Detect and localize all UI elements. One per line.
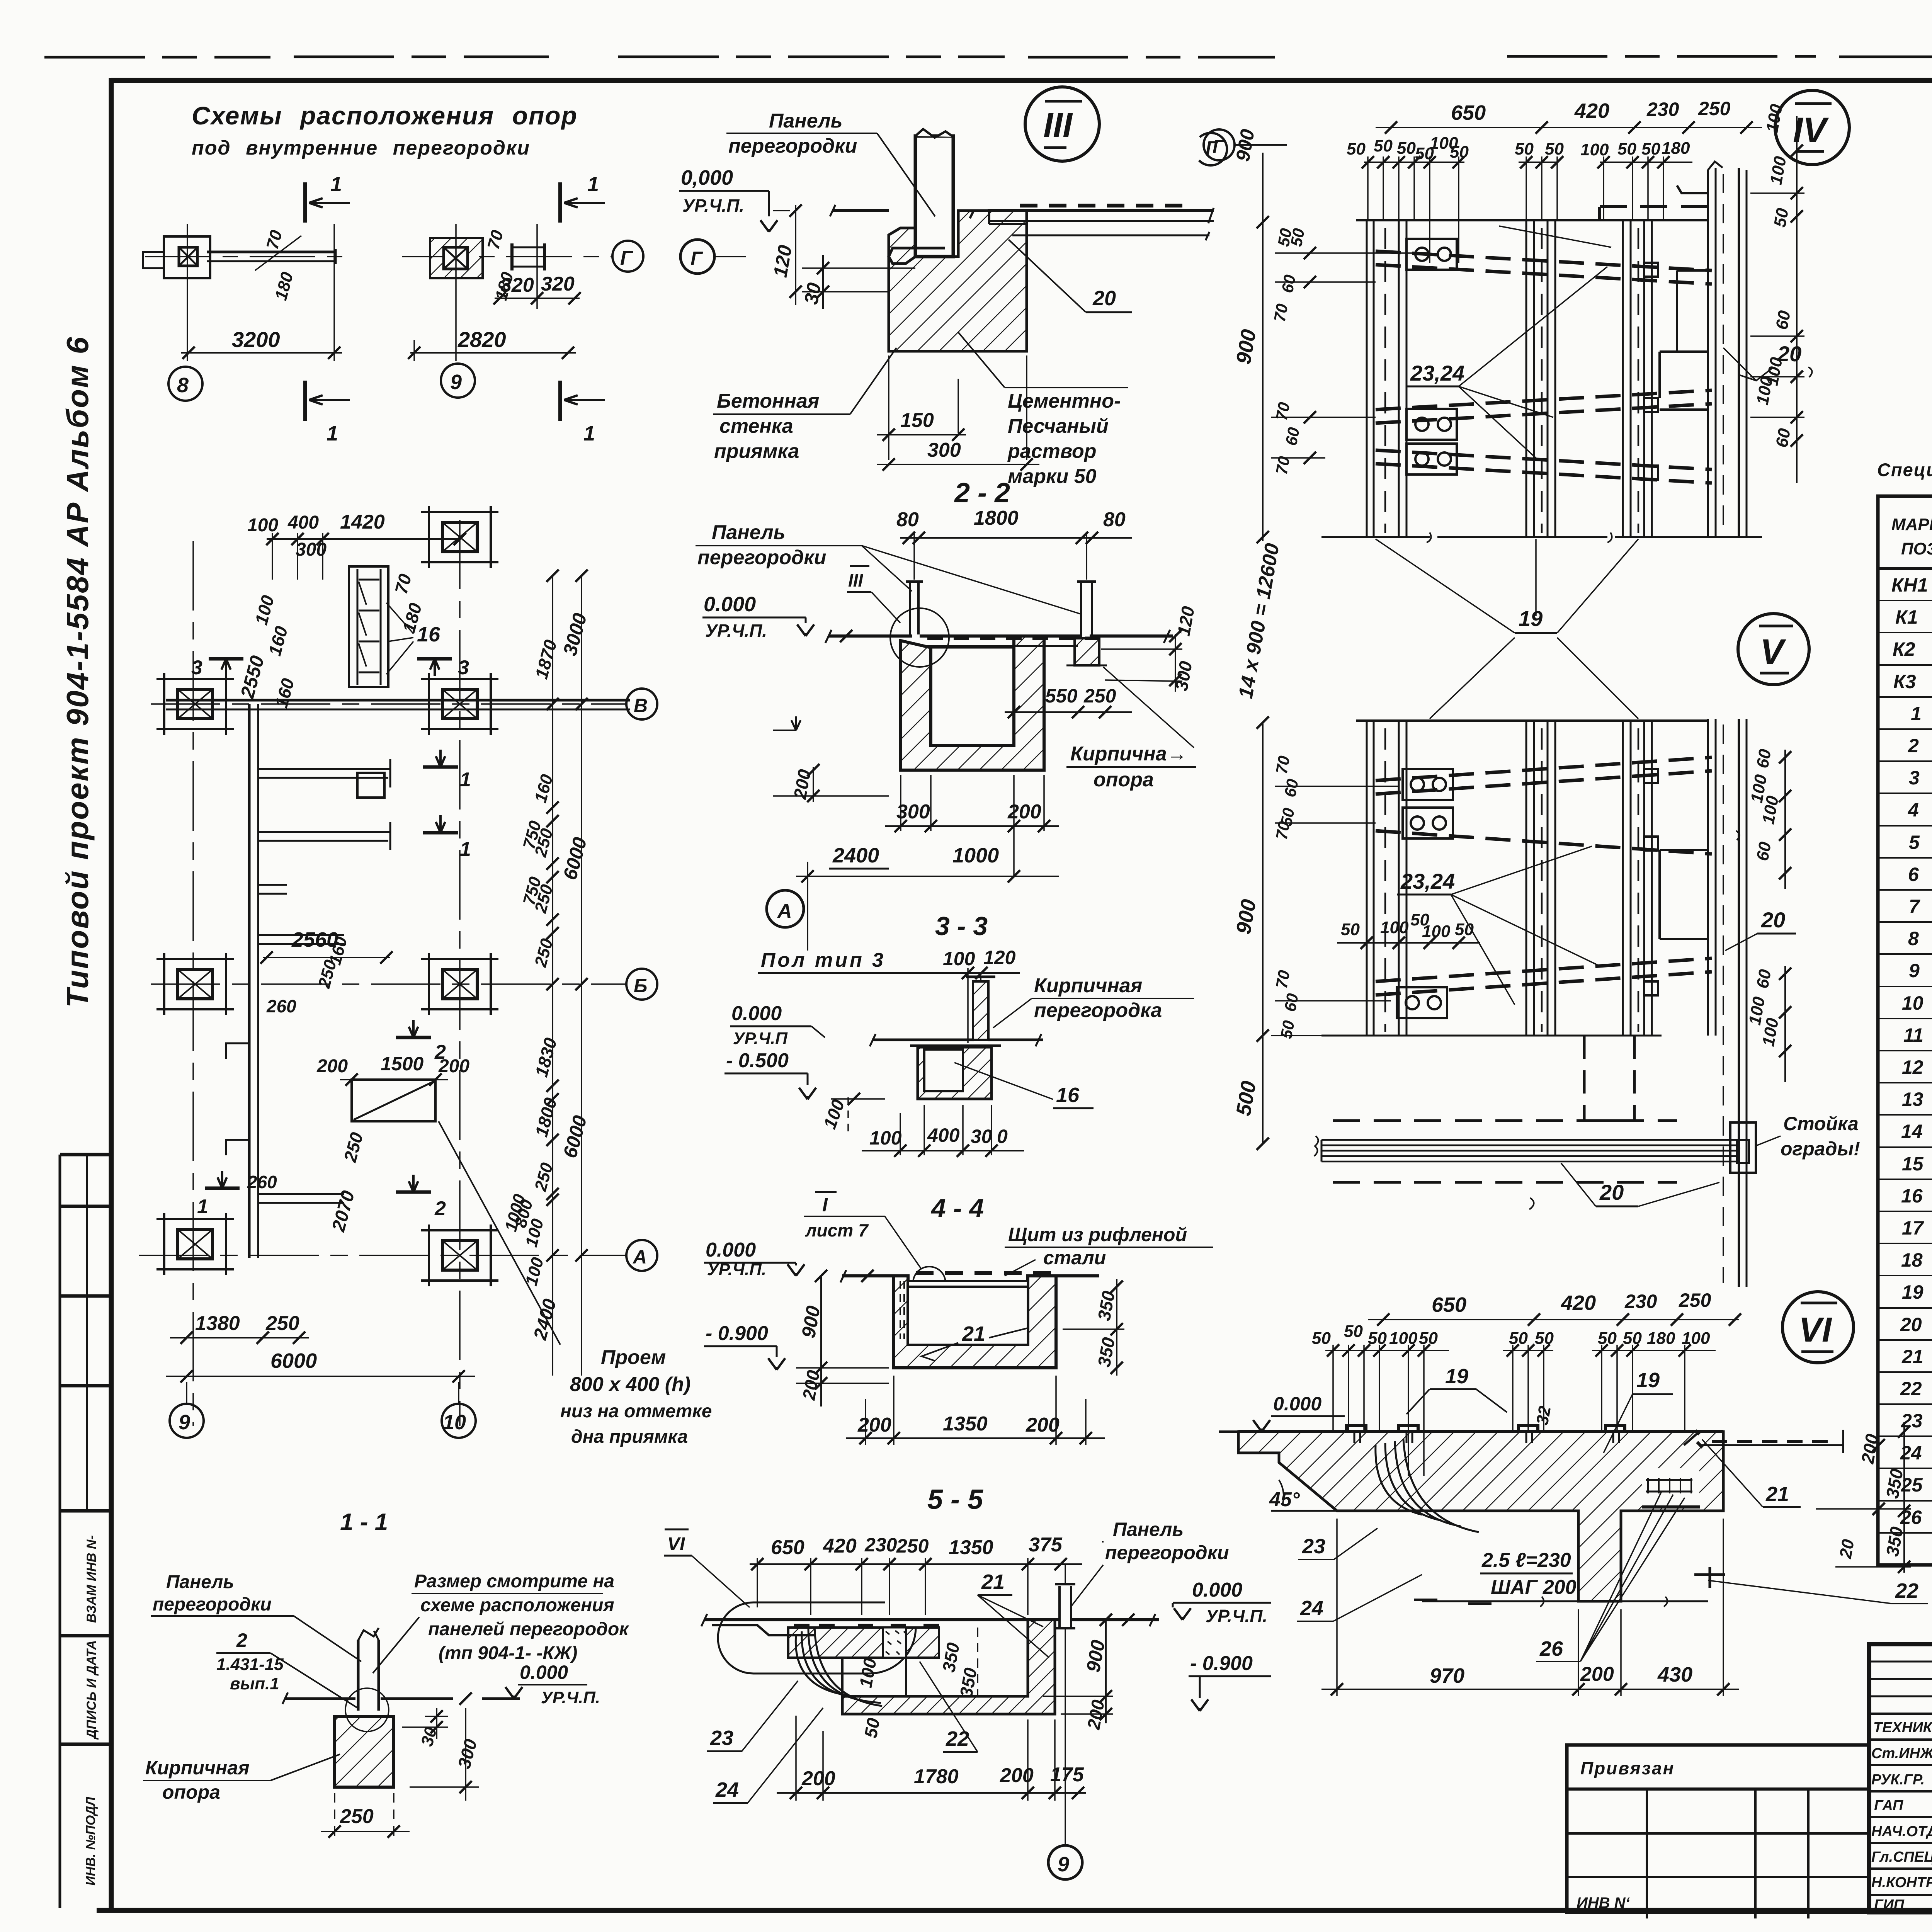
svg-text:3200: 3200 [232,327,280,352]
svg-text:0.000: 0.000 [1273,1393,1321,1415]
svg-text:1350: 1350 [949,1536,993,1559]
svg-text:МАРКА: МАРКА [1891,515,1932,534]
svg-text:низ на отметке: низ на отметке [560,1401,712,1422]
svg-text:3: 3 [458,656,469,679]
svg-text:0.000: 0.000 [704,593,756,616]
svg-text:24: 24 [715,1778,739,1801]
svg-text:26: 26 [1900,1507,1922,1528]
svg-text:Г: Г [620,247,633,269]
svg-text:раствор: раствор [1007,440,1096,463]
svg-text:375: 375 [1029,1534,1063,1556]
svg-text:УР.Ч.П.: УР.Ч.П. [1206,1606,1267,1626]
svg-text:0,000: 0,000 [681,166,733,189]
svg-text:УР.Ч.П: УР.Ч.П [733,1029,788,1048]
svg-text:23: 23 [1901,1410,1923,1432]
svg-text:100: 100 [247,515,278,536]
svg-text:100: 100 [1682,1329,1710,1348]
svg-text:650: 650 [1451,101,1486,124]
svg-text:180: 180 [1647,1329,1675,1348]
svg-text:1500: 1500 [381,1053,423,1075]
svg-text:30: 30 [971,1126,992,1147]
svg-text:60: 60 [1278,273,1299,294]
svg-text:0.000: 0.000 [706,1239,756,1261]
svg-text:опора: опора [1094,769,1154,791]
svg-text:К2: К2 [1893,638,1915,660]
svg-text:50: 50 [1515,139,1534,158]
svg-text:23,24: 23,24 [1400,869,1455,893]
svg-text:перегородка: перегородка [1034,999,1162,1022]
svg-text:12: 12 [1902,1056,1923,1078]
svg-text:60: 60 [1753,840,1775,862]
svg-text:0.000: 0.000 [731,1002,782,1025]
svg-text:30: 30 [800,281,825,306]
svg-text:VI: VI [1799,1311,1832,1349]
svg-text:21: 21 [962,1322,985,1345]
svg-text:панелей перегородок: панелей перегородок [428,1619,629,1639]
svg-text:К1: К1 [1895,606,1918,628]
svg-text:А: А [777,900,792,922]
svg-text:перегородки: перегородки [153,1594,272,1615]
svg-text:10: 10 [443,1411,466,1434]
svg-text:4 - 4: 4 - 4 [930,1194,984,1223]
svg-text:50: 50 [1455,920,1474,939]
svg-text:- 0.500: - 0.500 [726,1049,789,1072]
svg-text:200: 200 [1026,1414,1060,1436]
svg-text:19: 19 [1445,1365,1468,1388]
svg-text:400: 400 [287,512,319,533]
svg-text:23: 23 [710,1726,733,1750]
svg-text:ГИП: ГИП [1874,1897,1905,1913]
svg-text:Гл.СПЕЦ.Г: Гл.СПЕЦ.Г [1871,1849,1932,1865]
svg-text:200: 200 [857,1414,891,1436]
svg-text:ШАГ 200: ШАГ 200 [1491,1576,1577,1599]
svg-text:1: 1 [327,422,338,445]
svg-text:9: 9 [179,1411,190,1434]
svg-text:опора: опора [162,1781,220,1803]
svg-text:650: 650 [1432,1293,1466,1316]
svg-text:250: 250 [1083,685,1116,707]
svg-text:14: 14 [1901,1121,1923,1142]
svg-text:1: 1 [460,838,471,861]
svg-text:ВЗАМ ИНВ N-: ВЗАМ ИНВ N- [84,1535,99,1623]
svg-text:13: 13 [1902,1088,1923,1110]
svg-text:230: 230 [864,1534,897,1556]
svg-text:схеме расположения: схеме расположения [420,1595,614,1616]
svg-text:ИНВ. №ПОДЛ: ИНВ. №ПОДЛ [83,1797,98,1886]
svg-text:Щит из рифленой: Щит из рифленой [1008,1224,1187,1245]
svg-text:60: 60 [1281,992,1302,1013]
svg-text:2: 2 [434,1197,446,1220]
svg-text:250: 250 [340,1805,374,1828]
svg-text:19: 19 [1902,1281,1923,1303]
svg-text:Кирпичная: Кирпичная [145,1757,250,1779]
svg-text:21: 21 [1901,1346,1923,1367]
svg-text:стали: стали [1043,1247,1106,1269]
svg-text:УР.Ч.П.: УР.Ч.П. [541,1688,600,1707]
svg-text:дна приямка: дна приямка [571,1427,688,1447]
svg-text:60: 60 [1753,968,1775,990]
svg-text:19: 19 [1519,606,1543,631]
svg-text:5: 5 [1909,832,1920,853]
svg-text:5 - 5: 5 - 5 [927,1484,983,1515]
svg-text:200: 200 [1007,801,1041,823]
svg-text:17: 17 [1902,1217,1924,1239]
svg-text:19: 19 [1636,1369,1660,1392]
svg-text:К3: К3 [1893,671,1916,692]
svg-text:I: I [822,1194,828,1216]
svg-text:60: 60 [1753,748,1775,770]
svg-text:9: 9 [1909,960,1920,981]
svg-text:VI: VI [667,1534,685,1554]
svg-text:50: 50 [1641,139,1660,158]
svg-text:50: 50 [1341,920,1360,939]
svg-text:- 0.900: - 0.900 [1190,1652,1253,1675]
svg-text:100: 100 [1580,140,1609,159]
svg-text:Привязан: Привязан [1580,1758,1675,1778]
svg-text:3: 3 [191,656,202,679]
svg-text:16: 16 [417,623,440,646]
svg-text:50: 50 [1617,139,1636,158]
svg-text:(тп 904-1- -КЖ): (тп 904-1- -КЖ) [439,1643,577,1663]
svg-text:70: 70 [1272,969,1293,990]
svg-text:50: 50 [1277,1019,1298,1040]
svg-text:230: 230 [1624,1291,1657,1312]
svg-text:300: 300 [896,801,930,823]
svg-text:550: 550 [1045,685,1078,707]
svg-text:23,24: 23,24 [1410,361,1464,385]
svg-text:Песчаный: Песчаный [1008,415,1109,437]
svg-text:Панель: Панель [769,110,843,132]
svg-text:перегородки: перегородки [1105,1542,1229,1563]
svg-text:Панель: Панель [166,1572,234,1592]
svg-text:180: 180 [1662,139,1690,158]
svg-text:175: 175 [1050,1764,1084,1786]
svg-text:50: 50 [1397,139,1416,158]
svg-text:1800: 1800 [974,507,1019,529]
svg-text:Стойка: Стойка [1783,1113,1859,1134]
svg-text:21: 21 [981,1570,1005,1594]
svg-text:ИНВ N‘: ИНВ N‘ [1577,1895,1630,1912]
svg-text:под внутренние перегородки: под внутренние перегородки [192,137,530,159]
svg-text:26: 26 [1539,1637,1563,1660]
svg-text:1 - 1: 1 - 1 [340,1509,388,1536]
svg-text:1: 1 [1911,703,1922,724]
svg-text:9: 9 [1058,1853,1069,1876]
svg-text:9: 9 [450,371,462,394]
svg-text:20: 20 [1900,1314,1922,1335]
svg-text:В: В [634,695,648,716]
svg-text:200: 200 [316,1056,348,1077]
svg-text:стенка: стенка [719,415,793,437]
svg-text:1420: 1420 [340,511,385,533]
svg-text:2: 2 [1908,735,1919,757]
svg-text:2820: 2820 [457,327,506,352]
svg-text:60: 60 [1772,309,1794,331]
svg-text:24: 24 [1900,1442,1922,1464]
svg-text:3: 3 [1909,767,1920,789]
svg-text:11: 11 [1903,1024,1923,1046]
svg-text:1: 1 [587,173,599,196]
svg-text:100: 100 [1422,922,1451,941]
svg-text:300: 300 [927,439,961,461]
svg-text:2 - 2: 2 - 2 [954,478,1010,509]
svg-text:ДПИСЬ И ДАТА: ДПИСЬ И ДАТА [84,1640,99,1740]
svg-text:III: III [848,570,864,590]
svg-text:А: А [632,1246,647,1268]
svg-text:260: 260 [266,996,296,1016]
svg-text:20: 20 [1836,1538,1858,1560]
svg-text:1: 1 [583,422,595,445]
svg-text:1: 1 [197,1196,208,1218]
svg-text:Панель: Панель [1113,1519,1184,1540]
svg-text:22: 22 [946,1727,969,1750]
svg-text:15: 15 [1902,1153,1924,1175]
svg-text:22: 22 [1895,1579,1918,1602]
svg-text:1.431-15: 1.431-15 [216,1655,284,1674]
svg-text:70: 70 [1270,302,1291,323]
svg-text:320: 320 [541,273,575,295]
svg-text:РУК.ГР.: РУК.ГР. [1871,1772,1925,1788]
svg-text:50: 50 [1770,207,1793,229]
svg-text:2400: 2400 [832,844,879,867]
svg-text:Ст.ИНЖ: Ст.ИНЖ [1871,1745,1932,1762]
svg-text:Кирпичная: Кирпичная [1034,975,1142,997]
svg-text:6000: 6000 [270,1349,317,1372]
svg-text:перегородки: перегородки [697,546,826,569]
svg-text:10: 10 [1902,992,1923,1014]
svg-text:0: 0 [997,1126,1008,1147]
svg-text:80: 80 [896,509,919,531]
svg-text:1: 1 [460,769,471,791]
svg-text:Пол тип 3: Пол тип 3 [761,949,886,971]
svg-text:250: 250 [265,1312,299,1335]
svg-text:100: 100 [943,948,975,969]
svg-text:ПОЗ.: ПОЗ. [1901,539,1932,558]
svg-text:200: 200 [1000,1764,1034,1787]
svg-text:200: 200 [801,1767,835,1790]
svg-text:IV: IV [1793,111,1829,150]
svg-text:КН1: КН1 [1891,574,1928,596]
svg-text:100: 100 [1380,918,1409,937]
svg-text:2: 2 [236,1629,247,1651]
svg-text:50: 50 [1545,139,1564,158]
svg-text:V: V [1760,632,1786,672]
svg-text:150: 150 [900,409,934,432]
svg-text:25: 25 [1901,1474,1923,1496]
svg-text:60: 60 [1282,426,1303,447]
svg-text:420: 420 [1561,1291,1596,1315]
svg-text:100: 100 [869,1127,902,1149]
svg-text:1: 1 [330,173,342,196]
svg-text:Б: Б [634,975,647,997]
svg-text:- 0.900: - 0.900 [706,1322,768,1345]
svg-text:Кирпична→: Кирпична→ [1070,743,1187,765]
svg-text:4: 4 [1908,799,1919,821]
svg-text:80: 80 [1103,509,1126,531]
svg-text:Проем: Проем [601,1346,666,1369]
svg-text:ТЕХНИК: ТЕХНИК [1873,1719,1932,1736]
svg-text:Цементно-: Цементно- [1008,390,1121,412]
svg-text:8: 8 [177,374,189,397]
svg-text:32: 32 [1533,1405,1555,1427]
svg-text:120: 120 [983,947,1016,968]
svg-text:перегородки: перегородки [728,135,857,157]
svg-text:0.000: 0.000 [520,1662,568,1683]
svg-text:16: 16 [1901,1185,1923,1207]
svg-text:50: 50 [861,1716,884,1740]
svg-text:230: 230 [1646,99,1679,120]
svg-text:45°: 45° [1269,1488,1300,1511]
svg-text:ГАП: ГАП [1874,1798,1903,1814]
svg-text:22: 22 [1900,1378,1922,1400]
svg-text:УР.Ч.П.: УР.Ч.П. [705,621,767,641]
svg-text:420: 420 [1574,99,1609,122]
svg-text:50: 50 [1347,139,1366,158]
svg-text:20: 20 [1599,1180,1624,1204]
svg-text:лист 7: лист 7 [805,1220,869,1240]
svg-text:Размер смотрите на: Размер смотрите на [414,1571,614,1592]
svg-text:1780: 1780 [914,1765,959,1788]
svg-text:1380: 1380 [195,1312,240,1335]
svg-text:20: 20 [1761,908,1785,932]
svg-text:2.5 ℓ=230: 2.5 ℓ=230 [1481,1549,1571,1571]
svg-text:250: 250 [1698,98,1731,119]
svg-text:420: 420 [823,1535,857,1557]
svg-text:Панель: Панель [712,521,786,544]
svg-text:III: III [1043,106,1073,145]
svg-text:250: 250 [896,1535,929,1557]
svg-text:7: 7 [1909,896,1920,917]
svg-text:1350: 1350 [943,1413,988,1435]
svg-text:24: 24 [1300,1597,1323,1620]
svg-text:21: 21 [1765,1483,1789,1506]
svg-text:0.000: 0.000 [1192,1579,1242,1601]
svg-text:50: 50 [1312,1329,1331,1348]
svg-text:3 - 3: 3 - 3 [935,912,988,941]
svg-text:УР.Ч.П.: УР.Ч.П. [682,196,744,216]
svg-text:Спецификация к схеме расположе: Спецификация к схеме расположения элемен… [1877,459,1932,480]
svg-text:800 x 400 (h): 800 x 400 (h) [570,1373,690,1396]
svg-text:16: 16 [1056,1083,1080,1107]
svg-text:Г: Г [1213,137,1225,157]
svg-text:18: 18 [1901,1249,1923,1271]
svg-text:50: 50 [1344,1322,1363,1341]
svg-text:60: 60 [1281,777,1302,798]
svg-text:8: 8 [1908,928,1919,949]
svg-text:50: 50 [1374,136,1393,155]
svg-text:Схемы расположения опор: Схемы расположения опор [192,101,578,130]
svg-text:970: 970 [1430,1664,1464,1687]
svg-text:2: 2 [434,1041,446,1063]
svg-text:Г: Г [690,248,703,269]
svg-text:50: 50 [1287,227,1308,248]
svg-text:Н.КОНТР: Н.КОНТР [1871,1874,1932,1891]
svg-text:УР.Ч.П.: УР.Ч.П. [707,1260,766,1279]
svg-text:70: 70 [1272,754,1293,775]
svg-text:НАЧ.ОТД: НАЧ.ОТД [1871,1823,1932,1840]
svg-text:вып.1: вып.1 [230,1674,279,1693]
svg-text:650: 650 [771,1536,804,1559]
svg-text:Типовой проект 904-1-5584 А: Типовой проект 904-1-5584 АР Альбом 6 [60,336,95,1008]
svg-text:20: 20 [1092,287,1116,310]
svg-text:6: 6 [1908,864,1919,885]
svg-text:70: 70 [1272,401,1293,422]
svg-text:430: 430 [1657,1663,1692,1686]
svg-text:250: 250 [1679,1289,1711,1311]
svg-text:260: 260 [247,1172,277,1192]
svg-text:Бетонная: Бетонная [717,390,819,412]
svg-text:200: 200 [1580,1663,1614,1685]
svg-text:ограды!: ограды! [1781,1138,1860,1160]
svg-text:1000: 1000 [952,844,999,867]
svg-text:приямка: приямка [714,440,799,463]
svg-text:400: 400 [927,1124,960,1146]
svg-text:23: 23 [1302,1535,1325,1558]
